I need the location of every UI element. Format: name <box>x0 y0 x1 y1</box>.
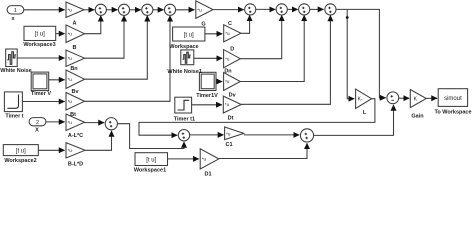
svg-text:X: X <box>35 128 39 134</box>
svg-text:To Workspace: To Workspace <box>434 110 471 116</box>
svg-text:Workspace3: Workspace3 <box>23 42 55 48</box>
svg-text:Bv: Bv <box>71 89 79 95</box>
svg-text:Bn: Bn <box>70 66 78 72</box>
svg-text:*u: *u <box>202 157 207 162</box>
svg-text:C1: C1 <box>225 142 232 148</box>
svg-text:*u: *u <box>68 99 73 104</box>
svg-text:White Noise1: White Noise1 <box>167 69 202 75</box>
svg-text:A-L*C: A-L*C <box>68 133 83 139</box>
svg-text:D1: D1 <box>204 171 211 177</box>
svg-text:*u: *u <box>68 31 73 36</box>
svg-text:*u: *u <box>226 131 231 136</box>
svg-text:*u: *u <box>225 79 230 84</box>
svg-text:B: B <box>73 45 77 51</box>
svg-text:Dt: Dt <box>228 116 234 122</box>
svg-text:Timer t: Timer t <box>5 113 23 119</box>
svg-text:Workspace2: Workspace2 <box>4 158 36 164</box>
svg-text:2: 2 <box>36 120 39 126</box>
svg-text:Dv: Dv <box>229 93 237 99</box>
svg-text:*u: *u <box>68 148 73 153</box>
svg-text:Dn: Dn <box>224 68 232 74</box>
svg-text:*u: *u <box>197 7 202 12</box>
svg-text:K-: K- <box>358 97 363 103</box>
svg-text:Workspace: Workspace <box>169 44 198 50</box>
svg-text:1: 1 <box>14 8 17 14</box>
svg-text:C: C <box>228 21 232 27</box>
svg-text:Workspace1: Workspace1 <box>134 167 166 173</box>
svg-text:D: D <box>230 46 234 52</box>
svg-text:*u: *u <box>68 120 73 125</box>
svg-text:*u: *u <box>68 56 73 61</box>
svg-text:[t u]: [t u] <box>184 32 194 38</box>
svg-text:A: A <box>73 21 77 27</box>
svg-text:x: x <box>11 16 15 22</box>
svg-text:White Noise: White Noise <box>0 68 31 74</box>
svg-text:G: G <box>201 22 205 28</box>
svg-text:L: L <box>363 110 367 116</box>
svg-text:Timer t1: Timer t1 <box>174 116 195 122</box>
svg-text:B-L*D: B-L*D <box>68 162 83 168</box>
svg-text:[t u]: [t u] <box>146 157 156 163</box>
svg-text:Timer1V: Timer1V <box>196 93 218 99</box>
svg-text:*u: *u <box>68 8 73 13</box>
svg-text:[t u]: [t u] <box>16 148 26 154</box>
svg-text:*u: *u <box>225 31 230 36</box>
svg-text:Gain: Gain <box>411 113 424 119</box>
svg-text:Timer V: Timer V <box>31 91 51 97</box>
svg-text:*u: *u <box>225 56 230 61</box>
svg-text:*u: *u <box>68 77 73 82</box>
svg-text:*u: *u <box>225 102 230 107</box>
svg-text:simout: simout <box>444 96 462 102</box>
svg-text:Bt: Bt <box>70 112 76 118</box>
svg-text:[t u]: [t u] <box>35 32 45 38</box>
